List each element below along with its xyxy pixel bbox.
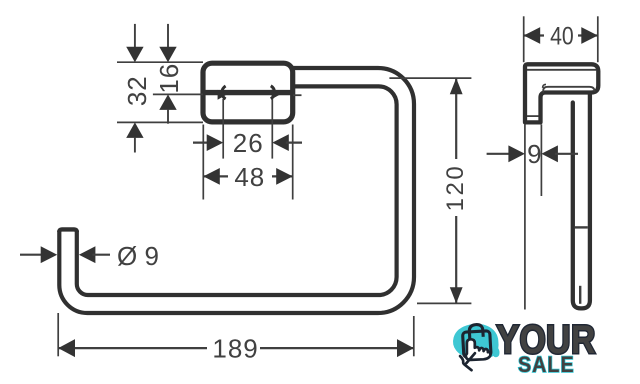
svg-text:26: 26 (233, 128, 264, 158)
logo shopping bag handle (469, 324, 483, 339)
dim 16 leader line bottom (167, 109, 169, 124)
towel ring inner contour (77, 86, 397, 295)
extension line plate bottom (y122) (117, 121, 203, 123)
side view arm top inner line (527, 69, 596, 71)
dim 26 left arrow (207, 134, 224, 151)
dim 32 up arrow (126, 122, 143, 137)
dim 40 left arrow (524, 27, 541, 44)
logo hand wrist right stroke (466, 353, 475, 363)
dim 189 left arrow (58, 339, 75, 357)
dim dia9 left tail (20, 254, 45, 256)
extension line bar level (y94) (153, 93, 203, 95)
svg-text:120: 120 (442, 164, 469, 212)
dim 120 bottom extension line (417, 302, 471, 304)
wall plate (front view) (203, 63, 293, 122)
dim 48 left arrow (203, 168, 220, 185)
side view tube joint line (575, 226, 588, 228)
side view plate inner foot line (527, 115, 539, 117)
towel ring open-end cap (hook top) (59, 229, 77, 232)
logo shopping bag body (462, 324, 491, 358)
dim 48 label background (228, 162, 272, 190)
dim 32 leader line top (134, 24, 136, 47)
dim 16 down arrow (159, 47, 176, 63)
dim 48 right extension line (292, 125, 294, 200)
dim 48 left extension line (202, 125, 204, 200)
dim 9 right tail (555, 153, 578, 155)
dim 9 left tail (487, 153, 511, 155)
side view tube elbow cap arc (543, 84, 546, 88)
logo blob drip (492, 346, 499, 357)
side view bracket outer contour (525, 64, 598, 122)
dim 189 right extension line (413, 316, 415, 356)
dim 120 line (455, 78, 457, 303)
dim 48 line (203, 175, 292, 177)
left mounting mark arc (222, 86, 226, 99)
side view tube inner bottom line (579, 286, 581, 304)
dim 9 right arrow (541, 145, 558, 162)
svg-text:189: 189 (212, 334, 258, 364)
dim 32 leader line bottom (134, 137, 136, 153)
dim 26 right arrow (272, 134, 289, 151)
dim dia9 right arrow (79, 246, 96, 263)
bar stub right of plate (293, 94, 302, 96)
wall reference line (524, 124, 526, 309)
dim 48 right arrow (276, 168, 293, 185)
dim 26 left extension line (222, 99, 224, 159)
dim 120 up arrow (450, 78, 463, 94)
side view hanging tube outline (573, 95, 590, 309)
right mounting mark arc (271, 86, 275, 99)
svg-text:48: 48 (234, 162, 265, 192)
towel ring outer contour (59, 68, 414, 313)
right mounting mark arrow (272, 90, 281, 100)
logo hand palm with pointing finger and knuckles (466, 339, 491, 360)
dim 32 down arrow (126, 47, 143, 63)
dim 40 right arrow (581, 27, 598, 44)
dim 40 line (524, 34, 598, 36)
left mounting mark arrow (218, 90, 227, 100)
dim 16 up arrow (159, 94, 176, 110)
svg-text:Ø 9: Ø 9 (117, 241, 159, 271)
side view arm bottom inner line with end curves (543, 87, 594, 93)
dim 120 top extension line (389, 77, 471, 79)
svg-text:40: 40 (550, 22, 574, 50)
dim 16 leader line top (167, 24, 169, 47)
svg-text:SALE: SALE (518, 353, 575, 377)
dim 40 left extension line (523, 16, 525, 62)
dim 9 left arrow (508, 145, 525, 162)
dim 189 line (58, 347, 414, 349)
svg-text:32: 32 (122, 75, 152, 106)
dim 40 right extension line (597, 16, 599, 62)
dim 189 left extension line (57, 313, 59, 356)
dim dia9 left arrow (41, 246, 58, 263)
dim 9 right extension line (540, 124, 542, 196)
dim 26 right tail (286, 142, 302, 144)
dim 26 right extension line (271, 99, 273, 159)
dim 189 label background (207, 334, 260, 361)
logo teal blob (453, 324, 499, 359)
dim 120 down arrow (450, 287, 463, 303)
dim 189 right arrow (397, 339, 414, 357)
svg-text:9: 9 (527, 139, 541, 169)
mounting bar through plate (204, 90, 293, 95)
svg-text:16: 16 (154, 63, 184, 94)
dim 120 label background (444, 159, 468, 216)
dim 26 left tail (193, 142, 210, 144)
dim dia9 right tail (92, 254, 110, 256)
dim 40 label background (544, 21, 578, 48)
extension line plate top (y62) (117, 61, 203, 63)
logo hand wrist left stroke (460, 356, 471, 370)
